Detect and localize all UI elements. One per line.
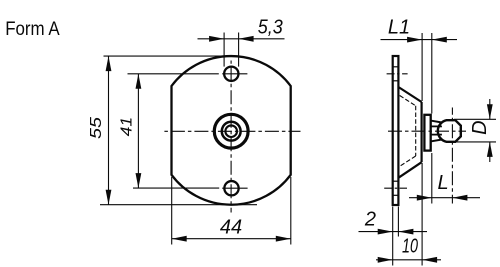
dim D dimension line lower bbox=[489, 142, 491, 162]
svg-text:5,3: 5,3 bbox=[258, 16, 283, 38]
hidden edge top hole in plate (lower) bbox=[393, 80, 398, 82]
dim 44 arrow left bbox=[172, 236, 187, 242]
dim 5,3 extension line left bbox=[223, 33, 225, 67]
flange outline (front view, obround plate) bbox=[172, 56, 291, 205]
cone hidden inner bottom slant bbox=[400, 156, 416, 166]
mounting hole top (Ø5,3) bbox=[224, 67, 238, 81]
neck lower taper edge bbox=[431, 140, 442, 142]
dim 55 dimension line bbox=[108, 56, 110, 205]
svg-text:10: 10 bbox=[402, 235, 418, 257]
dim 55 extension line top bbox=[104, 55, 238, 57]
hidden edge bottom hole in plate (upper) bbox=[393, 180, 398, 182]
dim 41 extension line bottom bbox=[133, 187, 219, 189]
dim 41 dimension line bbox=[137, 74, 139, 188]
dim D arrow top bbox=[487, 104, 493, 119]
dim 44 arrow right bbox=[276, 236, 291, 242]
neck upper taper edge bbox=[431, 121, 442, 123]
dim D dimension line upper bbox=[489, 99, 491, 119]
dim 2 extension line right bbox=[397, 207, 399, 237]
neck cylinder upper edge bbox=[431, 125, 442, 127]
dim L arrow left bbox=[417, 195, 432, 201]
collar circle (front view) bbox=[222, 122, 241, 141]
hidden edge top hole in plate (upper) bbox=[393, 66, 398, 68]
svg-text:44: 44 bbox=[220, 217, 242, 239]
centerline of bottom hole (side view) bbox=[384, 187, 407, 189]
dim 55 arrow top bbox=[106, 56, 112, 71]
vertical centerline of ball bbox=[451, 108, 453, 204]
dim 2 extension line left bbox=[392, 207, 394, 266]
dim L dimension line bbox=[409, 197, 480, 199]
dim 55 extension line bottom bbox=[100, 204, 257, 206]
dim 41 arrow top bbox=[136, 74, 142, 89]
dim L1 arrow left bbox=[407, 37, 422, 43]
dim L1 extension line left bbox=[421, 33, 423, 101]
dim 2 arrow right bbox=[398, 229, 413, 235]
svg-text:D: D bbox=[469, 120, 491, 134]
svg-text:L1: L1 bbox=[388, 17, 410, 39]
cone bottom slant edge bbox=[398, 162, 421, 178]
dim 2 dimension line bbox=[359, 231, 428, 233]
dim 5,3 arrow right bbox=[239, 36, 254, 42]
vertical centerline of flange bbox=[230, 61, 232, 213]
svg-text:55: 55 bbox=[88, 117, 105, 139]
dim D extension line bottom bbox=[456, 141, 496, 143]
svg-text:L: L bbox=[437, 172, 448, 194]
dim 55 arrow bottom bbox=[106, 190, 112, 205]
cone top slant edge bbox=[398, 87, 421, 102]
cone face edge bbox=[421, 102, 423, 162]
hidden edge bottom hole in plate (lower) bbox=[393, 194, 398, 196]
dim 10 arrow left bbox=[378, 257, 393, 263]
neck cylinder lower edge bbox=[431, 134, 442, 136]
dim 5,3 dimension line bbox=[198, 38, 285, 40]
dim 44 extension line left bbox=[171, 177, 173, 245]
horizontal centerline of flange bbox=[164, 130, 301, 132]
dim 5,3 arrow left bbox=[209, 36, 224, 42]
dim L arrow right bbox=[452, 195, 467, 201]
dim 41 arrow bottom bbox=[136, 173, 142, 188]
flange plate (side view, thickness 2) bbox=[393, 56, 399, 205]
svg-text:41: 41 bbox=[118, 117, 135, 137]
dim 10 extension line right bbox=[421, 163, 423, 266]
dim D arrow bottom bbox=[487, 142, 493, 157]
dim L extension line left bbox=[431, 153, 433, 204]
svg-text:2: 2 bbox=[364, 209, 376, 231]
dim 44 extension line right bbox=[290, 177, 292, 245]
dim 5,3 extension line right bbox=[238, 33, 240, 67]
horizontal centerline of stud bbox=[385, 130, 466, 132]
dim L1 arrow right bbox=[432, 37, 447, 43]
ball of stud (side view) bbox=[438, 120, 461, 142]
dim L1 dimension line bbox=[381, 39, 458, 41]
svg-text:Form A: Form A bbox=[5, 19, 60, 40]
centerline of top hole (side view) bbox=[387, 73, 408, 75]
dim 10 arrow right bbox=[422, 257, 437, 263]
dim L1 extension line right bbox=[431, 33, 433, 114]
dim 10 dimension line bbox=[376, 259, 441, 261]
centermark through bottom hole bbox=[222, 187, 247, 189]
centermark through top hole bbox=[222, 73, 247, 75]
dim 41 extension line top bbox=[128, 73, 219, 75]
ball outer circle (front view) bbox=[214, 114, 248, 148]
dim 44 dimension line bbox=[172, 238, 291, 240]
neck circle (front view) bbox=[225, 125, 237, 137]
cone hidden inner face bbox=[415, 106, 417, 156]
dim D extension line top bbox=[454, 118, 496, 120]
mounting hole bottom (Ø5,3) bbox=[224, 181, 238, 195]
cone hidden inner top slant bbox=[400, 96, 416, 106]
collar of ball stud (side view) bbox=[424, 115, 430, 151]
dim 2 arrow left bbox=[378, 229, 393, 235]
